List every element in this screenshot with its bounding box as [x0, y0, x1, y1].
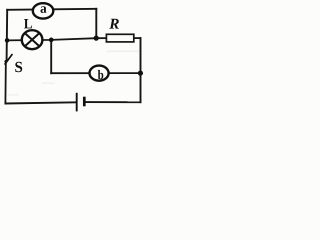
wire: left vertical lower segment (switch pivot to bottom-left corner) [4, 62, 6, 104]
resistor R [106, 34, 133, 42]
wire: b-meter horizontal [51, 72, 140, 74]
junction node D (b wire / right vertical) [138, 71, 143, 76]
wire: left vertical upper segment (top-left corner to switch upper contact) [6, 10, 9, 59]
ammeter a [33, 3, 54, 18]
wire: right vertical [140, 38, 142, 102]
wire: middle horizontal (node A through lamp to resistor) [7, 38, 106, 40]
battery cell: short thick plate (negative) [83, 97, 86, 107]
wire: resistor right link [134, 37, 141, 39]
battery cell: long plate (positive) [76, 93, 78, 112]
wire: bottom right segment [85, 101, 140, 103]
switch S: pivot contact dot [4, 60, 7, 63]
wire: top horizontal [7, 9, 96, 10]
wire: bottom left segment [5, 102, 75, 103]
switch S: blade [5, 54, 13, 65]
label S [15, 62, 22, 72]
label R [109, 19, 119, 29]
junction node C (top-right drop / middle wire) [94, 36, 99, 41]
label L [24, 19, 32, 28]
junction node A (left wire / lamp branch) [5, 38, 10, 43]
junction node B (lamp right / b branch) [49, 38, 54, 43]
lamp L [22, 30, 43, 49]
wire: b-meter branch vertical [50, 40, 52, 73]
meter b [90, 66, 109, 81]
wire: top-right vertical drop [95, 9, 97, 38]
